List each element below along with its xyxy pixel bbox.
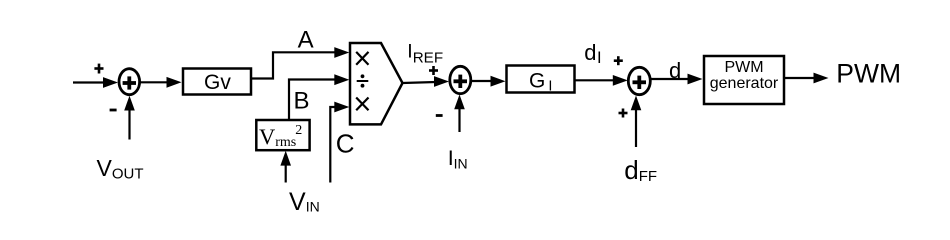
summing junction S2	[450, 66, 471, 93]
svg-text:A: A	[298, 27, 314, 54]
summing junction S3	[628, 67, 650, 94]
plus sign at S3 top input	[614, 56, 623, 65]
svg-text:C: C	[336, 129, 355, 159]
svg-text:Gv: Gv	[204, 71, 231, 94]
wire C into multiplier	[330, 107, 336, 183]
multiplier-divider block U1	[350, 43, 403, 124]
wire Gv up to A	[251, 52, 336, 78]
wire GI to S3	[575, 75, 628, 86]
arrowhead C into multiplier	[334, 102, 349, 113]
wire S2 to GI	[471, 76, 506, 87]
wire B from Vrms2 block to multiplier	[289, 80, 336, 121]
block PWM generator	[704, 56, 784, 104]
wire PWM generator output	[784, 73, 829, 84]
multiply symbol top	[356, 52, 368, 65]
plus sign at S1 input	[94, 64, 103, 74]
wire IIN arrow into S2	[454, 95, 465, 133]
wire multiplier output to S2	[403, 76, 450, 87]
wire S1 to Gv	[140, 77, 182, 88]
arrowhead B into multiplier	[334, 74, 349, 85]
multiply symbol bottom	[356, 98, 368, 111]
minus sign at S1	[110, 109, 117, 112]
arrowhead A into multiplier	[334, 47, 349, 58]
block Gv	[183, 69, 251, 95]
svg-text:PWM: PWM	[836, 59, 901, 89]
wire VIN arrow into Vrms2	[280, 151, 291, 183]
divide symbol	[357, 74, 369, 87]
minus sign at S2	[436, 114, 443, 117]
svg-text:B: B	[294, 88, 310, 115]
wire VOUT arrow into S1	[124, 96, 135, 140]
svg-text:generator: generator	[710, 75, 779, 92]
svg-text:d: d	[669, 58, 681, 83]
plus sign at S3 bottom input	[619, 109, 628, 118]
summing junction S1	[119, 69, 140, 95]
svg-text:PWM: PWM	[724, 59, 763, 76]
block GI	[507, 66, 575, 95]
wire dFF arrow into S3	[631, 96, 642, 148]
wire S3 to PWM generator	[651, 74, 703, 85]
block Vrms squared	[256, 120, 309, 150]
wire input to summing junction S1	[73, 77, 118, 88]
plus sign at S2 input	[429, 66, 438, 75]
